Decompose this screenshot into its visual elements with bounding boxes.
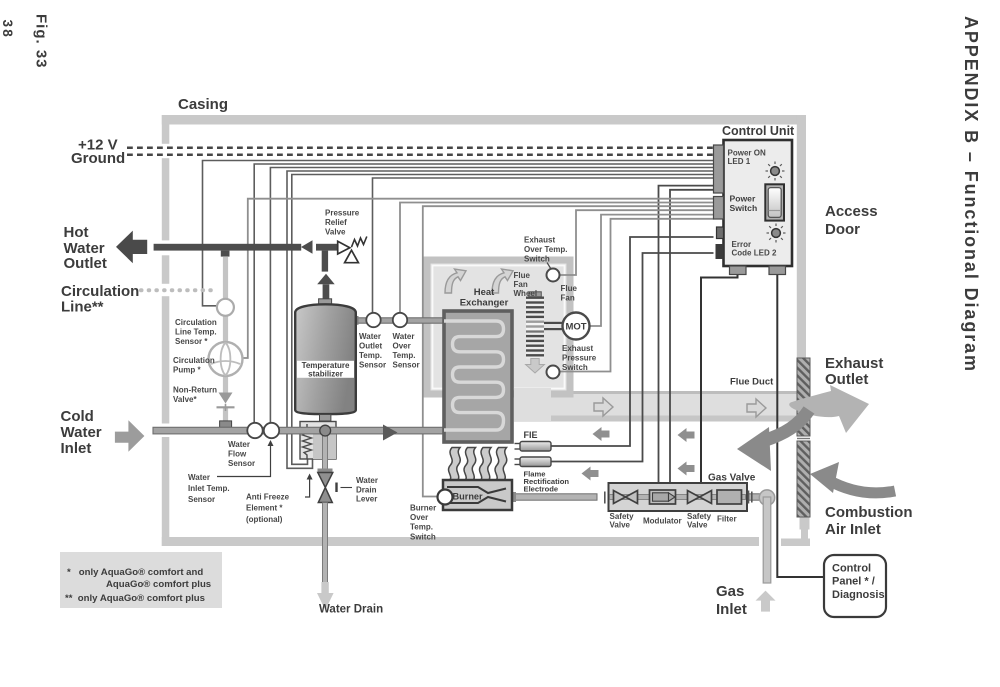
water drain valve [318,473,333,488]
filter [717,490,742,504]
wire to burner over temp switch [423,206,714,496]
hot water pipe [154,244,302,251]
svg-text:WaterDrainLever: WaterDrainLever [356,476,378,504]
casing bottom right piece [800,517,810,530]
wire control unit to gas valve filter [701,275,738,484]
HEAT EXCHANGER outer frame [427,260,570,421]
wire to gas valve 2 [670,190,714,483]
burner to gas valve pipe [515,494,597,500]
svg-text:Air Inlet: Air Inlet [825,521,881,538]
bottom connector tabs [730,266,747,275]
gas elbow [759,490,774,505]
pressure relief valve symbol [338,241,350,254]
power ON LED 1 [766,162,785,181]
combustion air curved arrow 2 [810,462,895,493]
svg-text:Inlet: Inlet [61,440,92,457]
svg-text:Filter: Filter [717,515,737,524]
svg-text:Water Drain: Water Drain [319,604,383,616]
wire to circulation pump [241,199,714,358]
svg-text:Exhaust: Exhaust [825,355,883,372]
safety valve 1 [614,491,638,504]
wire to FIE [551,237,714,446]
svg-text:Modulator: Modulator [643,517,682,526]
circulation pump [209,342,243,376]
svg-text:Line**: Line** [61,299,104,316]
ARROWS [445,269,895,493]
connector tab 3 [717,227,724,239]
water inlet temp sensor pointer [217,445,271,477]
hot pipe arrowhead [301,240,313,253]
cold pipe flow arrowhead [383,425,398,441]
wire to anti freeze element a [287,171,714,468]
tank top fitting [319,299,332,306]
svg-text:Flue Duct: Flue Duct [730,377,774,388]
svg-text:Burner: Burner [453,492,484,502]
svg-text:FlueFan: FlueFan [561,284,578,302]
connector tab 1 [714,145,724,193]
water drain flange [318,469,333,473]
circulation line temp sensor [217,299,234,316]
svg-text:Outlet: Outlet [64,255,107,272]
svg-text:Ground: Ground [71,150,125,167]
svg-text:Non-ReturnValve*: Non-ReturnValve* [173,386,217,405]
temperature stabilizer label plate [297,361,354,378]
serpentine heat exchanger coil box [444,311,512,442]
fan channel [514,388,551,421]
connector tab 2 [714,197,724,220]
circulation junction fitting [221,251,230,257]
svg-text:MOT: MOT [565,322,586,333]
burner [443,480,512,510]
temperature stabilizer tank [295,304,356,414]
wire to circulation line temp sensor [203,161,714,306]
svg-text:PressureReliefValve: PressureReliefValve [325,209,360,237]
wire to exhaust over temp switch [560,210,714,275]
duct flow arrow 2 [747,399,766,417]
svg-text:Hot: Hot [64,224,89,241]
svg-text:Anti FreezeElement *(optional): Anti FreezeElement *(optional) [246,493,290,524]
wire to water outlet temp sensor [373,178,714,314]
connector tab 4 [716,244,724,259]
water drain lever [335,483,337,493]
casing bottom edge [162,537,759,546]
tank inlet up arrow [317,274,335,285]
FIE electrode [520,442,551,452]
non-return valve [219,393,233,404]
combustion air curved arrow 1 [737,410,809,471]
wire to flame rectification electrode [551,253,714,462]
tank drain ball fitting [320,425,331,436]
svg-text:Casing: Casing [178,96,228,113]
water flow sensor [247,423,262,438]
svg-text:ExhaustPressureSwitch: ExhaustPressureSwitch [562,344,597,372]
burner pipe stub [512,492,517,502]
svg-text:Exchanger: Exchanger [460,298,509,309]
wire to exhaust pressure switch [560,219,714,372]
svg-text:FlameRectificationElectrode: FlameRectificationElectrode [524,470,570,494]
svg-text:Heat: Heat [474,287,495,298]
tank right stub [355,316,359,325]
power switch [765,184,784,220]
PIPES [115,231,776,612]
cold water inlet arrow [115,420,144,452]
casing left edge [162,115,170,144]
fan outlet down arrow [526,359,545,374]
return air arrow 4 [678,462,695,476]
gas valve assembly [609,483,752,511]
water drain pipe lower [322,503,327,583]
cold water pipe [153,427,446,434]
wire to anti freeze element b [292,175,714,465]
serpentine coil [444,321,504,430]
svg-text:Control Unit: Control Unit [722,124,795,138]
casing top edge [162,115,806,125]
svg-text:WaterOverTemp.Sensor: WaterOverTemp.Sensor [393,332,420,370]
wire to water flow sensor [254,164,713,423]
svg-text:WaterFlowSensor: WaterFlowSensor [228,440,255,468]
EXHAUST WALL (hatched) [797,358,810,517]
svg-text:SafetyValve: SafetyValve [610,512,635,530]
casing right edge [797,115,806,358]
anti freeze element pointer [305,478,310,497]
wire to water inlet temp sensor [270,168,713,424]
svg-text:FIE: FIE [524,430,538,440]
svg-text:Outlet: Outlet [825,371,868,388]
tank bottom fitting [320,415,331,422]
svg-text:CirculationLine Temp.Sensor *: CirculationLine Temp.Sensor * [175,318,217,346]
water over temp sensor [393,313,407,327]
burner over temp switch [438,490,453,505]
duct flow arrow 1 [594,398,613,416]
return air arrow 2 [678,428,695,442]
svg-text:Gas Valve: Gas Valve [708,473,756,484]
wire Ground dashed [127,154,714,157]
gas inlet pipe vertical [763,497,771,583]
gas inlet arrow [756,591,776,612]
modulator [650,490,676,504]
return air arrow 1 [593,427,610,441]
control panel box [824,555,886,617]
wire control unit to control panel [777,275,824,578]
burner flames [449,448,507,482]
wire to water over temp sensor [400,203,714,314]
flame rectification electrode [520,457,551,467]
wire to gas valve 1 [659,186,714,483]
svg-text:PowerSwitch: PowerSwitch [730,194,758,213]
wire +12V dashed [127,147,714,150]
safety valve 2 [688,491,712,504]
control unit [714,140,793,275]
tank outlet pipe to heat exchanger [356,318,446,323]
return air arrow 3 [582,467,599,481]
error code LED 2 [767,224,786,243]
hot water outlet arrow [116,231,147,264]
FOOTNOTE box [60,552,222,608]
svg-text:Fig. 33: Fig. 33 [33,14,50,69]
gas valve flange ticks [604,492,606,504]
exhaust outlet curved arrow [789,385,869,433]
motor shaft [544,322,563,324]
water drain pipe upper [322,434,327,469]
svg-text:Inlet: Inlet [716,601,747,618]
anti freeze element block [300,422,336,460]
svg-text:Gas: Gas [716,583,744,600]
svg-text:Circulation: Circulation [61,283,139,300]
exhaust pressure switch [547,366,560,379]
heat exchanger hook arrow 1 [445,269,466,293]
exhaust over temp switch [547,269,560,282]
FLUE DUCT band [514,391,797,422]
svg-text:Cold: Cold [61,408,94,425]
flue fan motor MOT [563,313,590,340]
gas valve to elbow pipe [748,494,762,500]
svg-text:SafetyValve: SafetyValve [687,512,712,530]
water drain arrow [317,582,334,610]
wire to flue fan motor [590,215,714,326]
circulation line dotted [141,288,214,292]
svg-text:WaterOutletTemp.Sensor: WaterOutletTemp.Sensor [359,332,386,370]
svg-text:BurnerOverTemp.Switch: BurnerOverTemp.Switch [410,504,436,542]
svg-text:stabilizer: stabilizer [308,369,343,378]
svg-text:Door: Door [825,221,860,238]
svg-text:Water: Water [61,424,102,441]
svg-text:Access: Access [825,203,878,220]
water outlet temp sensor [366,313,380,327]
heat exchanger hook arrow 2 [492,269,513,293]
svg-text:38: 38 [0,20,15,39]
svg-text:Combustion: Combustion [825,504,913,521]
pressure relief valve T fitting [316,244,341,251]
water inlet temp sensor [264,423,279,438]
svg-text:APPENDIX B – Functional Diagra: APPENDIX B – Functional Diagram [961,16,981,373]
circulation pipe to cold pipe fitting [220,421,232,428]
flue fan wheel [526,292,545,373]
svg-text:WaterInlet Temp.Sensor: WaterInlet Temp.Sensor [188,473,230,504]
circulation pipe vertical [223,257,228,424]
CASING [162,115,810,546]
